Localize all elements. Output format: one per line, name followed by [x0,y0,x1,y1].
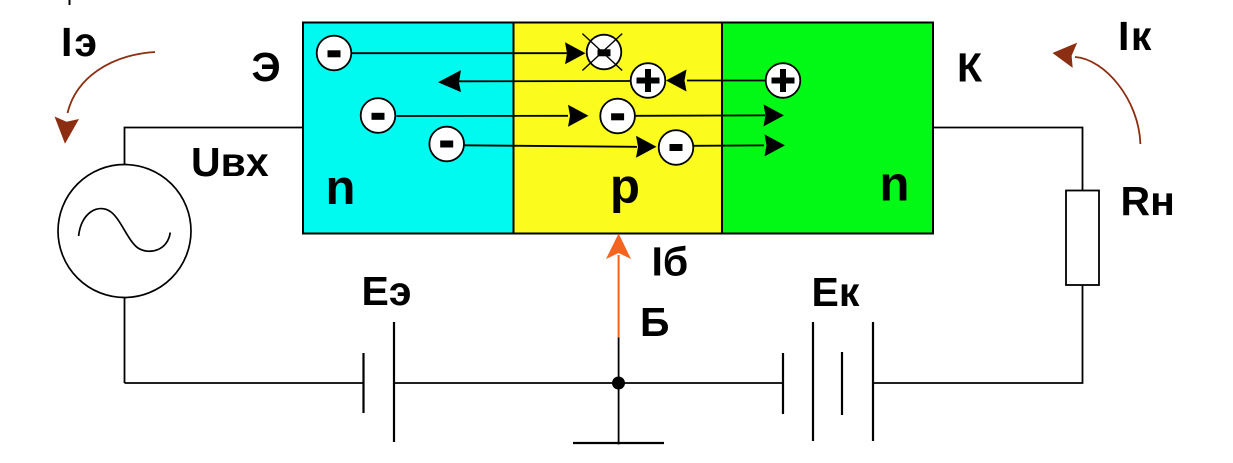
battery Eэ negative plate [362,353,364,413]
wire: electron row 3 left [465,145,638,147]
wire: Eэ to base node [394,382,619,384]
electron e4 [429,127,464,162]
arrowhead row 3 mid [636,136,657,158]
current arrow Iэ (curved, brown) [68,52,156,113]
battery Eк negative plate 1 [782,353,784,414]
svg-text:n: n [326,161,356,215]
wire: AC source top to emitter [125,128,304,165]
arrowhead hole row (left-pointing, in n-emitter) [438,70,461,92]
svg-text:n: n [880,158,910,212]
AC source U_in circle [58,165,191,298]
junction divider emitter-base [513,23,515,234]
electron e3 [361,98,396,133]
svg-text:Ек: Ек [812,269,860,315]
transistor body outer border [303,23,933,234]
node: base junction dot [612,377,625,390]
battery Eк negative plate 2 [841,352,843,415]
wire: electron row 2 right [635,114,765,116]
wire: base node up (black part) [618,338,620,384]
wire: electron row 2 left [397,115,569,117]
electron e5 [600,99,635,134]
base current arrow Iб (orange) [618,255,620,338]
transistor body: emitter n region (cyan) [303,23,514,234]
wire: Eк to resistor bottom [873,285,1083,383]
recombined electron (crossed) [582,34,622,71]
electron e6 [659,130,694,165]
wire: electron row 1 [352,52,568,54]
battery Eк positive plate 1 [812,322,814,441]
stray tick top [69,0,71,5]
battery Eк positive plate 2 [872,322,874,441]
wire: hole row right segment [687,80,766,82]
resistor Rн [1066,191,1099,286]
arrowhead row 2 in collector [764,104,785,126]
hole h2 [766,63,801,98]
wire: electron row 3 right [693,144,764,146]
svg-text:Rн: Rн [1121,178,1175,224]
svg-text:Iэ: Iэ [61,19,99,65]
electron e1 [317,36,352,71]
battery Eэ positive plate [393,322,395,442]
ground bar [573,442,664,444]
wire: hole row left segment [459,80,631,82]
svg-text:К: К [957,44,983,90]
wire: base node to Eк [619,382,784,384]
wire: AC source bottom to lower rail [124,298,126,384]
svg-text:Б: Б [640,299,669,345]
arrowhead row 2 mid [568,105,589,127]
svg-text:Iк: Iк [1118,13,1153,59]
wire: base node down to ground [618,383,620,445]
current arrow Iк (curved, brown) [1075,57,1140,144]
svg-text:Uвх: Uвх [191,139,269,185]
arrowhead hole row (left-pointing, at h1) [666,70,687,92]
sine wave inside AC source [79,209,171,252]
svg-text:p: p [610,160,640,214]
arrowhead row 1 [565,42,586,64]
wire: resistor top to collector [933,128,1083,191]
svg-text:Еэ: Еэ [362,268,412,314]
junction divider base-collector [721,23,723,234]
hole h1 [631,63,666,98]
transistor body: collector n region (green) [722,23,933,234]
svg-text:Э: Э [252,44,281,90]
arrowhead row 3 in collector [765,134,786,156]
svg-text:Iб: Iб [652,238,689,284]
wire: lower rail left segment [125,382,364,384]
transistor body: base p region (yellow) [514,23,723,234]
